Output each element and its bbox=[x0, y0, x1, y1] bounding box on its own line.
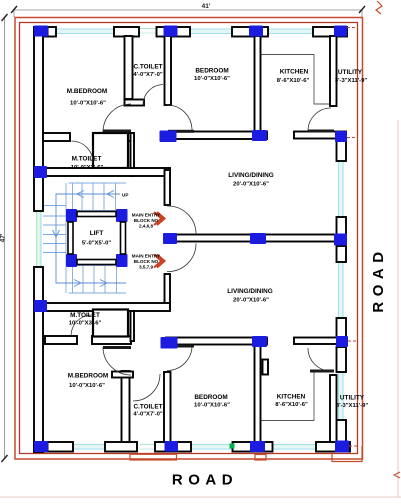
lobby west wall upper bbox=[165, 170, 171, 205]
utility west wall bottom bbox=[330, 375, 337, 442]
BEDROOM top door arc bbox=[167, 105, 192, 130]
column top wall 2 bbox=[164, 26, 178, 37]
svg-text:MAIN ENTRY: MAIN ENTRY bbox=[132, 254, 160, 259]
kitchen west wall top bbox=[255, 36, 261, 132]
bottom C.TOILET top stub bbox=[112, 372, 133, 378]
svg-text:2,4,6,8: 2,4,6,8 bbox=[139, 224, 153, 229]
hall to M.BEDROOM bottom door arc bbox=[103, 347, 131, 375]
svg-text:3'-3"X11'-9": 3'-3"X11'-9" bbox=[335, 78, 368, 84]
inner red plot boundary bbox=[20, 23, 358, 454]
svg-text:KITCHEN: KITCHEN bbox=[280, 69, 309, 76]
svg-text:UTILITY: UTILITY bbox=[338, 69, 363, 76]
svg-text:C.TOILET: C.TOILET bbox=[134, 64, 163, 71]
svg-text:10'-0"X3'-6": 10'-0"X3'-6" bbox=[69, 321, 102, 327]
left dimension line 47' bbox=[4, 17, 6, 459]
main entry upper door arc bbox=[167, 206, 196, 234]
leaf BEDROOM bottom bbox=[168, 345, 194, 348]
red chajja rect bottom left bbox=[130, 454, 177, 460]
window cyan lines: top wall bbox=[48, 29, 313, 34]
svg-text:5'-0"X5'-0": 5'-0"X5'-0" bbox=[82, 241, 112, 247]
column bottom-right corner bbox=[335, 441, 349, 453]
shaft box top bbox=[93, 133, 128, 168]
column top wall 3 bbox=[249, 26, 263, 37]
lift column SE bbox=[116, 254, 128, 267]
leaf utility top bbox=[308, 130, 334, 133]
top exterior wall segments bbox=[34, 27, 56, 37]
svg-text:BEDROOM: BEDROOM bbox=[195, 68, 228, 75]
corridor north wall piece bbox=[125, 100, 145, 106]
M.TOILET bottom door arc bbox=[71, 315, 92, 336]
window cyan lines: bottom wall bbox=[48, 445, 316, 450]
bottom BEDROOM door arc bbox=[167, 346, 192, 371]
column bottom-left corner bbox=[34, 441, 48, 452]
right exterior wall mid segments bbox=[337, 139, 347, 161]
svg-text:M.BEDROOM: M.BEDROOM bbox=[68, 373, 108, 380]
green door mark bottom bbox=[230, 444, 235, 449]
bottom exterior wall segments bbox=[34, 442, 73, 452]
leaf hall/M.BEDROOM bottom bbox=[103, 346, 131, 349]
hall south wall (bottom bedroom north) bbox=[166, 338, 267, 345]
hall to M.BEDROOM top door arc bbox=[103, 104, 131, 132]
shaft box bottom bbox=[93, 310, 128, 337]
corridor east wall top bbox=[131, 133, 135, 176]
svg-text:20'-0"X10'-6": 20'-0"X10'-6" bbox=[233, 182, 269, 188]
column top-left corner bbox=[34, 26, 48, 37]
leaf hall/M.BEDROOM top bbox=[103, 130, 131, 133]
svg-text:BLOCK NO: BLOCK NO bbox=[134, 218, 159, 223]
right exterior wall upper (utility west side is 330-336.5) bbox=[330, 36, 337, 106]
top dimension line 41' bbox=[14, 10, 362, 17]
svg-text:47': 47' bbox=[0, 233, 7, 242]
svg-text:C.TOILET: C.TOILET bbox=[134, 404, 163, 411]
svg-text:4'-0"X7'-0": 4'-0"X7'-0" bbox=[133, 72, 163, 78]
svg-text:LIVING/DINING: LIVING/DINING bbox=[228, 172, 273, 179]
column spine east bbox=[334, 234, 347, 246]
svg-text:MAIN ENTRY: MAIN ENTRY bbox=[132, 213, 160, 218]
faint bottom line bbox=[0, 496, 401, 498]
leaf bottom utility bbox=[310, 370, 334, 373]
svg-text:M.TOILET: M.TOILET bbox=[70, 312, 100, 319]
bottom C.TOILET door arc bbox=[133, 374, 160, 401]
column spine west bbox=[163, 233, 177, 244]
column kitchen corner bottom bbox=[252, 336, 267, 347]
hall north wall (bedroom south) bbox=[166, 132, 267, 140]
svg-text:LIFT: LIFT bbox=[90, 230, 104, 237]
bottom utility door arc bbox=[308, 348, 331, 371]
stairs treads and arrows bbox=[43, 183, 126, 293]
svg-text:ROAD: ROAD bbox=[172, 472, 238, 489]
column left wall upper bbox=[34, 166, 47, 178]
column right wall upper bbox=[335, 131, 347, 142]
svg-text:ROAD: ROAD bbox=[370, 246, 387, 312]
svg-text:KITCHEN: KITCHEN bbox=[277, 394, 306, 401]
lobby west wall lower bbox=[165, 274, 171, 305]
svg-text:10'-0"X10'-6": 10'-0"X10'-6" bbox=[69, 383, 105, 389]
lobby north wall right part bbox=[294, 132, 346, 139]
svg-text:UP: UP bbox=[122, 193, 128, 198]
column hall west bottom bbox=[161, 337, 178, 349]
lift shaft walls bbox=[68, 212, 126, 265]
faint right boundary line bbox=[397, 120, 399, 497]
stair walking path with arrows bbox=[53, 191, 127, 287]
red dashed ties to boundary bbox=[347, 28, 358, 447]
svg-text:3'-3"X11'-9": 3'-3"X11'-9" bbox=[336, 403, 369, 409]
vent window bottom (pale green) bbox=[140, 445, 156, 450]
kitchen counter thin line top bbox=[260, 55, 331, 105]
red chajja small rect bottom kitchen bbox=[255, 455, 266, 461]
svg-text:10'-0"X10'-6": 10'-0"X10'-6" bbox=[194, 76, 230, 82]
stair south wall bbox=[38, 303, 170, 311]
svg-text:3,5,7,9: 3,5,7,9 bbox=[139, 265, 153, 270]
M.TOILET top door arc bbox=[72, 141, 94, 163]
column bottom wall 2 bbox=[165, 441, 179, 452]
lift column NE bbox=[116, 209, 128, 222]
main entry lower door arc bbox=[167, 244, 196, 272]
lift column NW bbox=[66, 209, 77, 222]
svg-text:LIVING/DINING: LIVING/DINING bbox=[227, 288, 272, 295]
M.TOILET top wall right piece bbox=[93, 133, 134, 141]
column top-right corner bbox=[334, 26, 347, 37]
svg-text:BEDROOM: BEDROOM bbox=[194, 394, 227, 401]
vent window top (pale green) bbox=[140, 29, 157, 34]
bottom kitchen west wall bbox=[255, 346, 261, 442]
spine wall bbox=[170, 235, 340, 242]
bottom bedroom west wall bbox=[164, 372, 171, 442]
svg-text:10'-0"X3'-6": 10'-0"X3'-6" bbox=[71, 165, 104, 171]
svg-text:8'-6"X10'-6": 8'-6"X10'-6" bbox=[275, 402, 308, 408]
kitchen counter thin line bottom bbox=[259, 372, 331, 421]
svg-text:8'-6"X10'-6": 8'-6"X10'-6" bbox=[277, 78, 310, 84]
column left wall lower bbox=[34, 300, 47, 312]
column hall west top bbox=[160, 131, 177, 143]
window cyan lines: left wall bbox=[37, 211, 42, 267]
outer red plot boundary bbox=[15, 18, 363, 460]
small red arrow right bottom bbox=[394, 472, 400, 478]
M.TOILET top wall left piece bbox=[43, 133, 70, 141]
window end caps bbox=[48, 28, 268, 452]
leaf BEDROOM top bbox=[168, 130, 194, 133]
lift column SW bbox=[66, 254, 77, 267]
svg-text:41': 41' bbox=[202, 3, 211, 10]
column spine mid bbox=[250, 233, 266, 244]
window cyan lines: right wall bbox=[339, 161, 344, 420]
svg-text:4'-0"X7'-0": 4'-0"X7'-0" bbox=[133, 412, 163, 418]
red step bottom right bbox=[332, 446, 362, 462]
stair north wall bbox=[38, 168, 170, 176]
wall B (C.TOILET / BEDROOM) bbox=[165, 36, 172, 105]
red break zigzag top right bbox=[376, 1, 382, 14]
interior: wall A (M.BEDROOM / C.TOILET) bbox=[125, 36, 133, 99]
door leaf bars bbox=[103, 130, 334, 373]
corridor east wall bottom bbox=[131, 311, 135, 341]
svg-text:UTILITY: UTILITY bbox=[340, 395, 365, 402]
left exterior wall segments bbox=[34, 27, 43, 211]
column kitchen corner top bbox=[252, 130, 267, 141]
M.TOILET bottom walls bbox=[45, 336, 77, 344]
svg-text:20'-0"X10'-6": 20'-0"X10'-6" bbox=[233, 298, 269, 304]
bottom kitchen stub wall bbox=[263, 360, 269, 375]
window glass fills bbox=[37, 29, 344, 449]
main entry red arrows bbox=[154, 212, 165, 268]
column right wall lower bbox=[336, 336, 348, 347]
svg-text:M.BEDROOM: M.BEDROOM bbox=[67, 88, 107, 95]
bottom C.TOILET left wall bbox=[122, 371, 130, 442]
svg-text:10'-0"X10'-6": 10'-0"X10'-6" bbox=[70, 101, 106, 107]
svg-text:BLOCK NO: BLOCK NO bbox=[134, 259, 159, 264]
svg-text:10'-0"X10'-6": 10'-0"X10'-6" bbox=[194, 403, 230, 409]
lobby south wall right part (bottom) bbox=[294, 338, 346, 345]
utility lobby door arc top bbox=[308, 108, 331, 131]
column bottom wall 3 bbox=[250, 441, 265, 452]
C.TOILET top door arc bbox=[143, 85, 163, 106]
svg-text:M.TOILET: M.TOILET bbox=[72, 156, 102, 163]
